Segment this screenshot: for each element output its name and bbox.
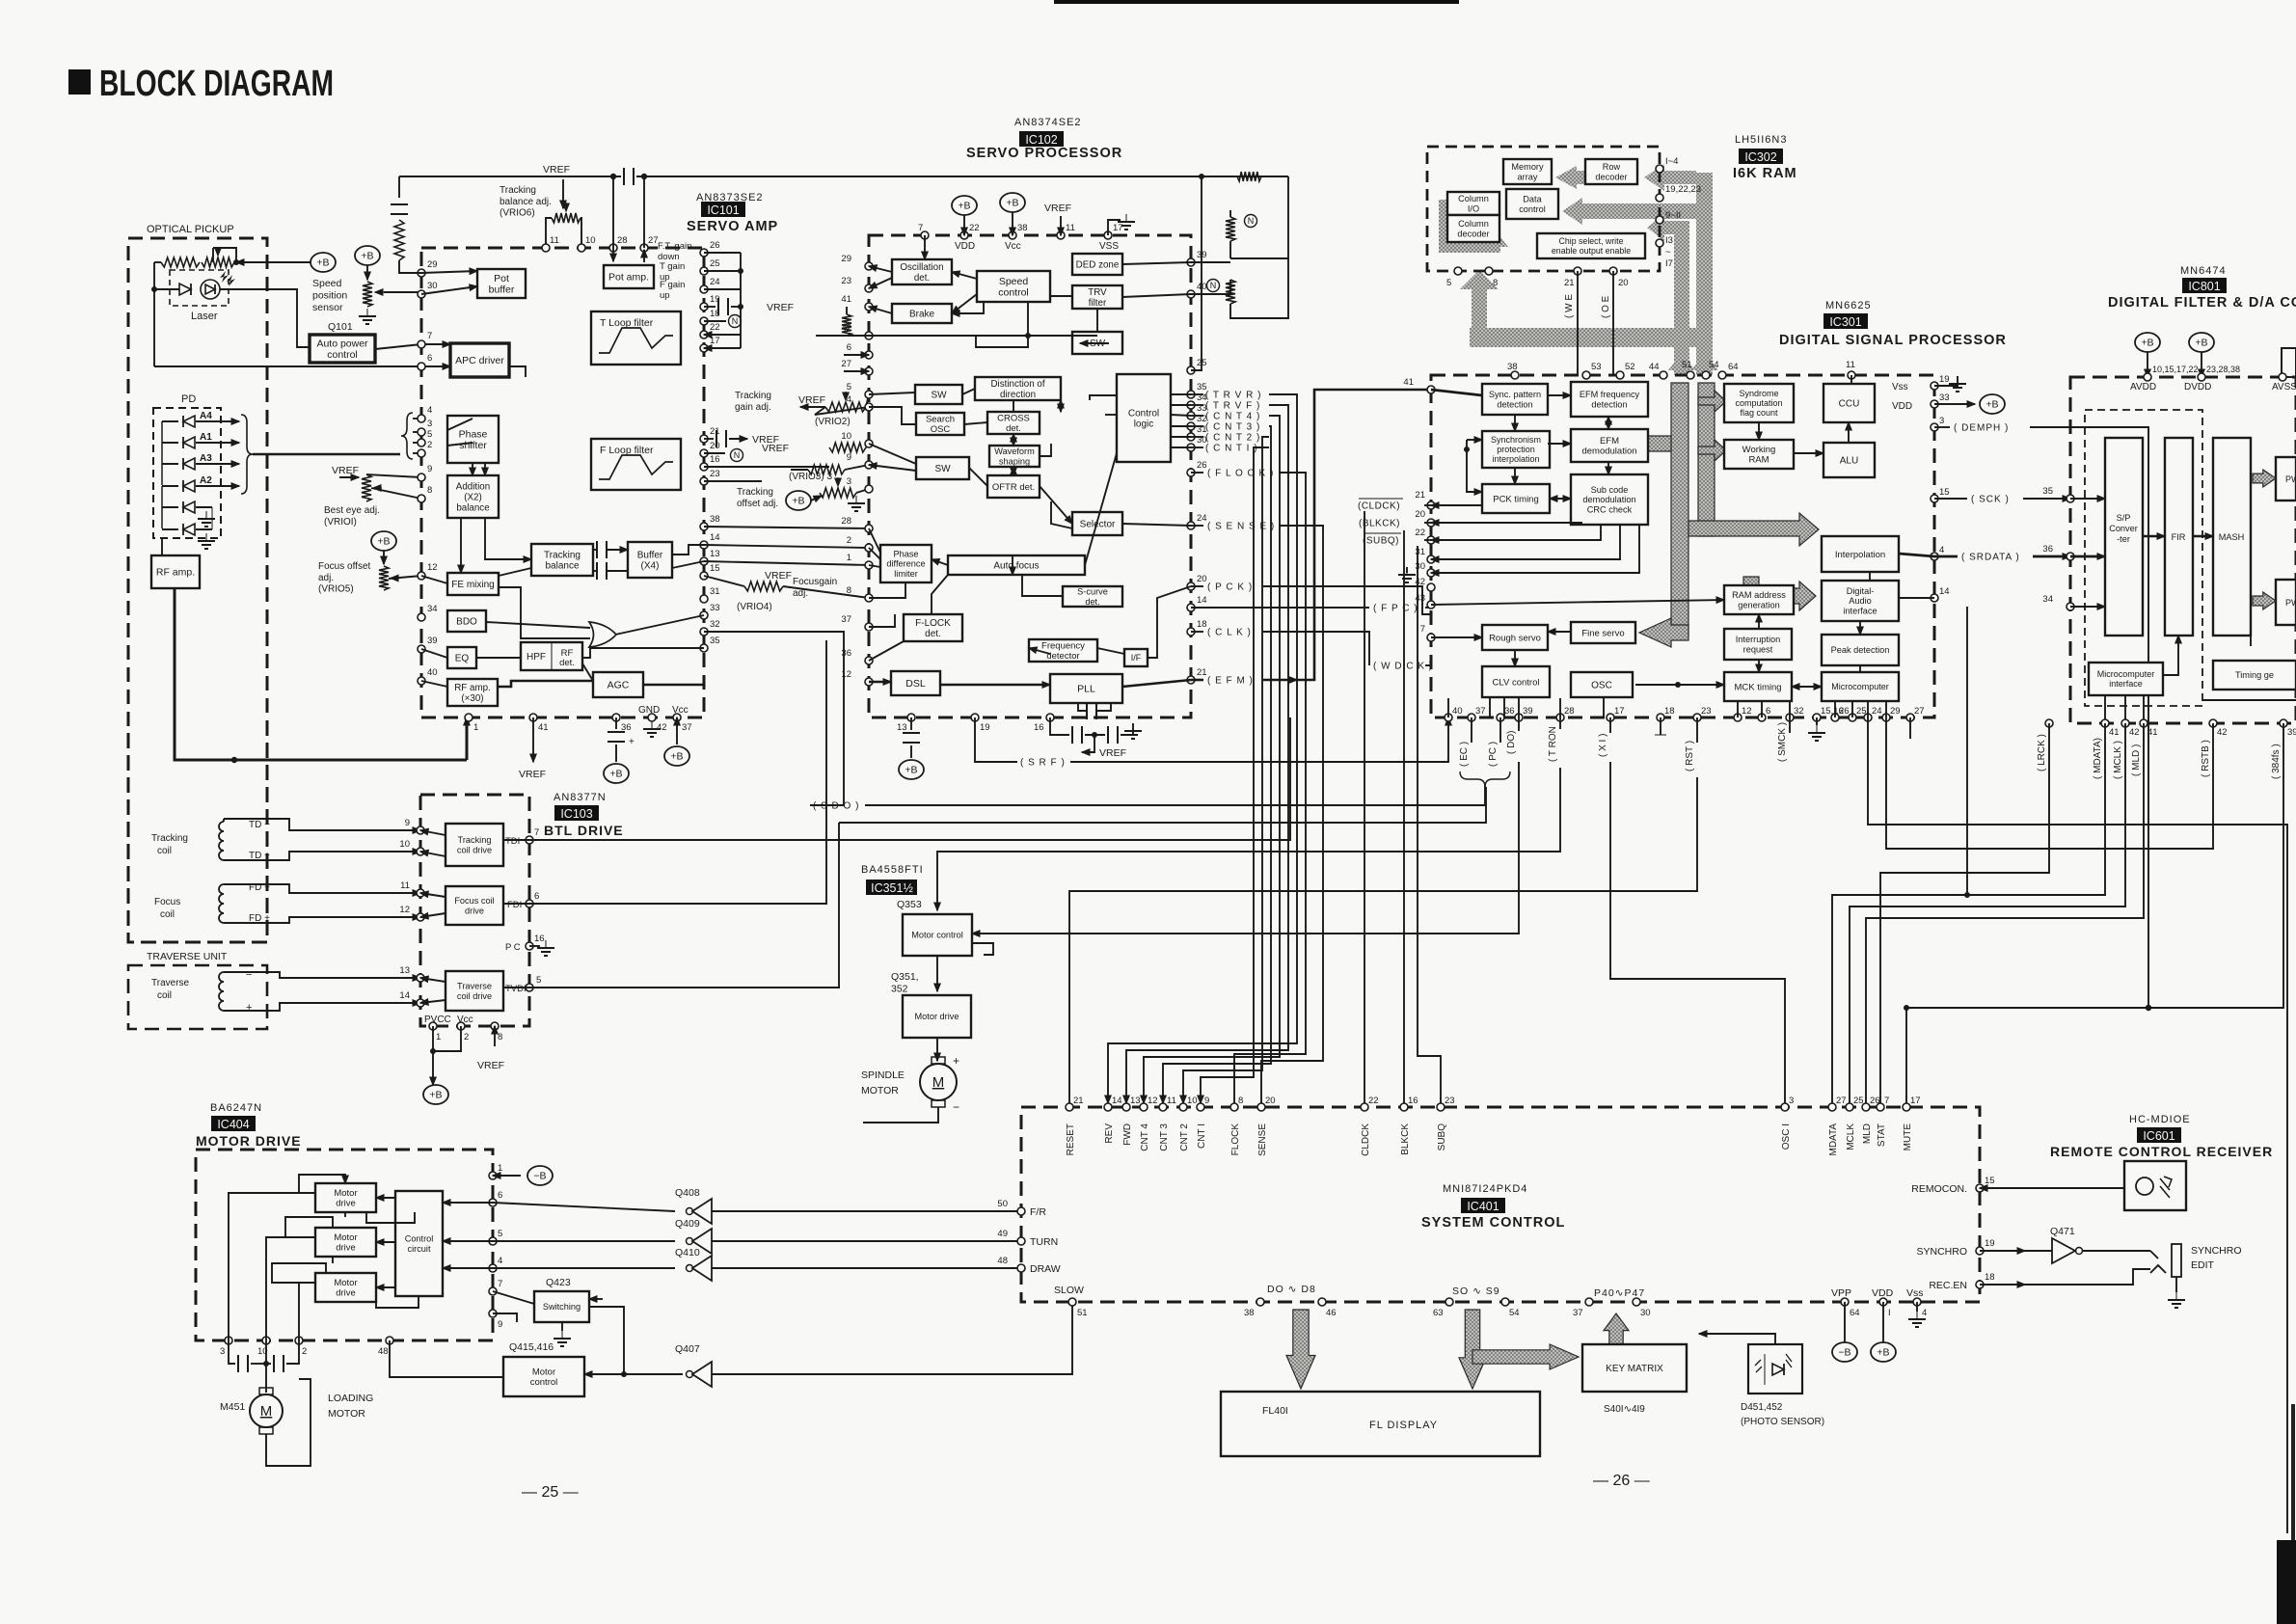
motor M451 loading bbox=[250, 1379, 311, 1466]
svg-text:Speed: Speed bbox=[999, 276, 1029, 287]
svg-text:37: 37 bbox=[1475, 706, 1486, 717]
svg-text:BDO: BDO bbox=[456, 617, 477, 628]
svg-text:Column: Column bbox=[1458, 194, 1489, 203]
svg-text:13: 13 bbox=[1130, 1096, 1141, 1106]
svg-text:balance: balance bbox=[456, 502, 490, 513]
timing generator bbox=[2213, 661, 2296, 690]
svg-text:14: 14 bbox=[710, 532, 720, 543]
svg-text:T gain: T gain bbox=[660, 261, 685, 272]
svg-text:29: 29 bbox=[427, 259, 438, 270]
transistor Q410 inverter bbox=[493, 1247, 1021, 1281]
svg-text:(BLKCK): (BLKCK) bbox=[1359, 519, 1400, 529]
VREF resistor pins 10 9 bbox=[762, 443, 869, 474]
svg-text:Q471: Q471 bbox=[2050, 1226, 2075, 1237]
svg-text:STAT: STAT bbox=[1877, 1123, 1887, 1147]
svg-text:19: 19 bbox=[980, 722, 990, 733]
svg-text:12: 12 bbox=[427, 562, 438, 573]
wires inside IC102 bbox=[869, 251, 1191, 719]
svg-text:24: 24 bbox=[1872, 706, 1882, 717]
svg-text:(VRIO3) 3: (VRIO3) 3 bbox=[789, 472, 832, 482]
svg-text:detector: detector bbox=[1046, 651, 1079, 662]
svg-text:24: 24 bbox=[1197, 513, 1207, 524]
svg-text:M: M bbox=[260, 1403, 273, 1420]
brake bbox=[892, 304, 952, 323]
wires IC102 bottom external bbox=[899, 717, 1142, 779]
svg-text:17: 17 bbox=[1614, 706, 1625, 717]
svg-text:IC404: IC404 bbox=[217, 1118, 249, 1131]
control logic bbox=[1117, 374, 1171, 462]
wire DEMPH bbox=[1934, 423, 2151, 1012]
svg-text:MLD: MLD bbox=[1862, 1123, 1873, 1144]
svg-text:CNT 3: CNT 3 bbox=[1159, 1123, 1170, 1151]
svg-text:27: 27 bbox=[841, 359, 851, 369]
focus coil bbox=[154, 882, 420, 924]
svg-text:2: 2 bbox=[464, 1032, 469, 1042]
wire TD1 from right bbox=[529, 717, 1290, 840]
svg-text:VDD: VDD bbox=[1872, 1287, 1894, 1299]
svg-text:( X I ): ( X I ) bbox=[1598, 734, 1608, 757]
svg-text:10: 10 bbox=[399, 839, 410, 850]
wire SDO bbox=[704, 632, 1485, 812]
IC401 top pin row bbox=[1066, 1096, 1921, 1156]
svg-text:VREF: VREF bbox=[765, 570, 792, 582]
svg-text:det.: det. bbox=[559, 658, 575, 668]
svg-text:(SUBQ): (SUBQ) bbox=[1363, 536, 1399, 547]
svg-text:9: 9 bbox=[847, 452, 851, 463]
svg-text:51: 51 bbox=[1077, 1308, 1088, 1318]
svg-text:53: 53 bbox=[1591, 362, 1602, 372]
wires IC101 right gain pins bbox=[704, 253, 743, 348]
svg-text:Q408: Q408 bbox=[675, 1187, 700, 1199]
svg-text:19: 19 bbox=[1985, 1238, 1995, 1249]
svg-text:38: 38 bbox=[1017, 223, 1028, 233]
RAM address generation bbox=[1724, 585, 1794, 614]
svg-text:26: 26 bbox=[1839, 706, 1850, 717]
auto focus bbox=[948, 555, 1085, 575]
svg-text:offset adj.: offset adj. bbox=[737, 499, 778, 509]
IC103 pin set bbox=[399, 818, 544, 1042]
photodiode symbols bbox=[162, 411, 239, 549]
svg-text:BA6247N: BA6247N bbox=[210, 1102, 262, 1114]
svg-text:REV: REV bbox=[1104, 1123, 1115, 1144]
Q101 auto power control box bbox=[310, 335, 375, 363]
svg-text:buffer: buffer bbox=[489, 284, 515, 296]
ground below switching bbox=[554, 1322, 571, 1346]
svg-text:EQ: EQ bbox=[455, 654, 470, 664]
remote control receiver IC601 bbox=[2124, 1161, 2186, 1210]
IC351 reference bbox=[866, 880, 917, 895]
svg-text:P C: P C bbox=[505, 942, 521, 953]
svg-text:drive: drive bbox=[465, 906, 484, 915]
svg-text:( W E: ( W E bbox=[1564, 294, 1575, 318]
EFM demodulation bbox=[1571, 429, 1648, 462]
svg-text:34: 34 bbox=[427, 604, 438, 614]
svg-text:gain adj.: gain adj. bbox=[735, 402, 771, 413]
svg-text:8: 8 bbox=[1493, 278, 1498, 288]
svg-text:F/R: F/R bbox=[1030, 1206, 1046, 1218]
svg-text:26: 26 bbox=[1197, 460, 1207, 471]
wire PD bundle to phase shifter bbox=[241, 413, 421, 494]
svg-text:Row: Row bbox=[1603, 162, 1621, 172]
svg-text:Control: Control bbox=[1128, 408, 1159, 419]
svg-text:1: 1 bbox=[436, 1032, 441, 1042]
svg-text:25: 25 bbox=[1853, 1096, 1864, 1106]
IC103 internal wires bbox=[420, 830, 554, 1003]
IC401 right pin row bbox=[1911, 1176, 1994, 1291]
svg-text:PCK timing: PCK timing bbox=[1493, 494, 1539, 504]
svg-text:5: 5 bbox=[847, 382, 851, 392]
svg-text:( LRCK ): ( LRCK ) bbox=[2037, 734, 2047, 771]
svg-text:23: 23 bbox=[710, 469, 720, 479]
svg-text:Tracking: Tracking bbox=[737, 487, 773, 498]
wires inside IC301 bbox=[1398, 375, 1934, 717]
svg-text:( T R V F ): ( T R V F ) bbox=[1205, 401, 1260, 412]
svg-text:( O E: ( O E bbox=[1601, 295, 1611, 318]
svg-text:AN8377N: AN8377N bbox=[554, 792, 607, 803]
PCK timing bbox=[1482, 484, 1550, 513]
svg-text:~: ~ bbox=[1665, 247, 1671, 257]
svg-text:Motor: Motor bbox=[334, 1188, 357, 1199]
svg-text:+B: +B bbox=[1006, 198, 1018, 209]
tracking gain adj pot VR102 bbox=[800, 392, 869, 415]
best eye adj pot VR101 bbox=[332, 465, 421, 501]
svg-text:27: 27 bbox=[1914, 706, 1925, 717]
svg-text:generation: generation bbox=[1738, 600, 1779, 609]
svg-text:19,22,23: 19,22,23 bbox=[1665, 184, 1701, 195]
IC801 boundary bbox=[2070, 377, 2296, 723]
sync pattern detection bbox=[1482, 384, 1548, 415]
microcomputer bbox=[1822, 672, 1899, 701]
svg-text:42: 42 bbox=[2217, 727, 2228, 738]
svg-text:VREF: VREF bbox=[332, 465, 359, 476]
label focusgain adj bbox=[793, 577, 837, 599]
svg-text:41: 41 bbox=[2109, 727, 2120, 738]
svg-text:decoder: decoder bbox=[1457, 229, 1489, 238]
svg-text:21: 21 bbox=[1564, 278, 1575, 288]
svg-text:detection: detection bbox=[1591, 399, 1627, 409]
svg-text:coil drive: coil drive bbox=[457, 991, 492, 1001]
svg-text:SYNCHRO: SYNCHRO bbox=[2191, 1245, 2242, 1257]
S P converter bbox=[2105, 438, 2143, 636]
svg-text:+B: +B bbox=[2141, 338, 2153, 349]
svg-text:41: 41 bbox=[2147, 727, 2158, 738]
svg-text:( SCK ): ( SCK ) bbox=[1971, 495, 2010, 505]
svg-text:FIR: FIR bbox=[2172, 532, 2186, 542]
MCK timing bbox=[1724, 672, 1792, 701]
svg-text:Synchronism: Synchronism bbox=[1491, 435, 1541, 445]
svg-text:DO ∿ D8: DO ∿ D8 bbox=[1267, 1284, 1316, 1295]
IC103 bottom power wires bbox=[423, 1026, 504, 1104]
svg-text:25: 25 bbox=[710, 258, 720, 269]
IC101 bottom pins bbox=[465, 705, 692, 733]
svg-text:-ter: -ter bbox=[2117, 534, 2130, 544]
F-LOCK det bbox=[904, 614, 962, 641]
svg-text:11: 11 bbox=[1066, 223, 1075, 233]
wire WE OE to DSP bbox=[1564, 271, 1613, 375]
svg-text:IC401: IC401 bbox=[1467, 1200, 1499, 1213]
svg-text:A2: A2 bbox=[200, 475, 212, 486]
svg-text:DED zone: DED zone bbox=[1076, 259, 1120, 270]
gray arrow to syndrome computation bbox=[1698, 391, 1726, 412]
svg-text:AVSS: AVSS bbox=[2272, 382, 2296, 392]
svg-text:13: 13 bbox=[710, 549, 720, 559]
svg-text:Focus offset: Focus offset bbox=[318, 561, 371, 572]
svg-text:( SRDATA ): ( SRDATA ) bbox=[1961, 553, 2020, 563]
op-amp IC101 servo amp boundary bbox=[421, 248, 704, 717]
svg-text:drive: drive bbox=[336, 1288, 356, 1299]
svg-text:Motor: Motor bbox=[532, 1367, 555, 1378]
svg-text:40: 40 bbox=[427, 667, 438, 678]
svg-text:difference: difference bbox=[886, 559, 925, 569]
speed control bbox=[977, 271, 1050, 302]
svg-text:( C N T 4 ): ( C N T 4 ) bbox=[1205, 412, 1260, 422]
svg-text:3: 3 bbox=[1939, 416, 1944, 426]
OSC bbox=[1571, 672, 1633, 697]
wires IC101 bottom bbox=[519, 717, 689, 783]
wire X1 to OSC1 bbox=[1598, 717, 1785, 1107]
svg-text:LOADING: LOADING bbox=[328, 1393, 373, 1404]
svg-text:Microcomputer: Microcomputer bbox=[2097, 669, 2155, 679]
svg-text:41: 41 bbox=[1403, 377, 1414, 388]
svg-text:( S D O ): ( S D O ) bbox=[813, 801, 859, 812]
svg-text:control: control bbox=[998, 287, 1029, 299]
svg-text:7: 7 bbox=[918, 223, 923, 233]
svg-text:1: 1 bbox=[473, 722, 478, 733]
svg-text:Laser: Laser bbox=[191, 311, 218, 322]
svg-text:REMOCON.: REMOCON. bbox=[1911, 1183, 1967, 1195]
svg-text:VREF: VREF bbox=[1099, 747, 1126, 759]
svg-text:position: position bbox=[312, 289, 347, 301]
svg-text:balance: balance bbox=[545, 561, 579, 572]
IC101 reference bbox=[701, 202, 745, 217]
gray arrow S bus to key matrix bbox=[1472, 1344, 1579, 1369]
svg-text:enable output enable: enable output enable bbox=[1552, 246, 1631, 256]
svg-text:42: 42 bbox=[657, 722, 667, 733]
tracking balance adj pot VR106 bbox=[543, 164, 581, 248]
Q353 motor control box bbox=[903, 914, 972, 956]
svg-text:( RSTB ): ( RSTB ) bbox=[2201, 740, 2211, 777]
svg-text:Interpolation: Interpolation bbox=[1835, 550, 1885, 560]
PD enclosure bbox=[153, 408, 221, 538]
svg-text:2: 2 bbox=[847, 535, 851, 546]
wire APC driver output bbox=[509, 366, 526, 377]
AGC bbox=[593, 672, 643, 697]
svg-text:F gain: F gain bbox=[660, 280, 685, 290]
svg-text:36: 36 bbox=[1504, 706, 1515, 717]
transistor Q407 inverter bbox=[584, 1302, 1072, 1387]
IC301 bottom pin row bbox=[1445, 706, 1925, 721]
PW upper bbox=[2276, 457, 2296, 501]
wires TRVR TRVF CNT bus to IC401 bbox=[1108, 391, 1297, 1104]
svg-text:— 25 —: — 25 — bbox=[522, 1484, 579, 1501]
svg-text:35: 35 bbox=[710, 636, 720, 646]
svg-text:IC302: IC302 bbox=[1744, 150, 1776, 164]
svg-text:22: 22 bbox=[1368, 1096, 1379, 1106]
svg-text:11: 11 bbox=[550, 235, 559, 246]
svg-text:adj.: adj. bbox=[793, 588, 808, 599]
IC102 reference bbox=[1019, 131, 1064, 147]
svg-text:OFTR det.: OFTR det. bbox=[992, 482, 1035, 493]
svg-text:REMOTE CONTROL RECEIVER: REMOTE CONTROL RECEIVER bbox=[2050, 1144, 2273, 1159]
svg-text:CNT I: CNT I bbox=[1197, 1123, 1207, 1149]
svg-text:16: 16 bbox=[534, 934, 545, 944]
svg-text:IC101: IC101 bbox=[707, 203, 739, 217]
IC801 bottom signal labels bbox=[2037, 734, 2282, 779]
svg-text:Brake: Brake bbox=[909, 310, 935, 320]
svg-text:12: 12 bbox=[1148, 1096, 1158, 1106]
wire DSP24 route right bbox=[1868, 717, 2287, 1533]
svg-text:CNT 4: CNT 4 bbox=[1140, 1123, 1150, 1151]
svg-text:BLOCK DIAGRAM: BLOCK DIAGRAM bbox=[99, 64, 334, 104]
svg-text:MCLK: MCLK bbox=[1846, 1123, 1856, 1150]
svg-text:detection: detection bbox=[1497, 399, 1532, 409]
svg-text:PW: PW bbox=[2285, 598, 2296, 608]
svg-text:−: − bbox=[246, 969, 252, 981]
wire motor control feedback bbox=[972, 943, 993, 955]
svg-text:MOTOR DRIVE: MOTOR DRIVE bbox=[196, 1133, 302, 1149]
wire PD to RF amp bbox=[161, 538, 163, 555]
svg-text:D451,452: D451,452 bbox=[1741, 1402, 1783, 1413]
CCU bbox=[1823, 384, 1875, 422]
svg-text:41: 41 bbox=[538, 722, 549, 733]
svg-text:3: 3 bbox=[1789, 1096, 1794, 1106]
EFM frequency detection bbox=[1571, 382, 1648, 417]
svg-text:SW: SW bbox=[934, 464, 951, 474]
svg-text:Buffer: Buffer bbox=[637, 550, 663, 560]
svg-text:48: 48 bbox=[997, 1256, 1008, 1266]
svg-text:+B: +B bbox=[316, 257, 329, 269]
svg-text:Phase: Phase bbox=[459, 428, 488, 440]
svg-text:I7: I7 bbox=[1665, 258, 1673, 269]
T loop filter box bbox=[591, 311, 681, 365]
svg-text:4: 4 bbox=[1922, 1308, 1927, 1318]
svg-text:MOTOR: MOTOR bbox=[328, 1408, 365, 1420]
svg-text:31: 31 bbox=[1415, 547, 1425, 557]
label FT gain bbox=[658, 241, 691, 262]
svg-text:OSC I: OSC I bbox=[1781, 1123, 1792, 1150]
svg-text:+B: +B bbox=[670, 751, 683, 763]
svg-text:+: + bbox=[953, 1054, 959, 1068]
control circuit bbox=[395, 1191, 443, 1296]
svg-text:Q351,: Q351, bbox=[891, 971, 919, 983]
svg-text:10: 10 bbox=[1187, 1096, 1198, 1106]
wire SENSE bbox=[1191, 522, 1323, 1108]
label T gain bbox=[660, 261, 685, 283]
svg-text:APC driver: APC driver bbox=[455, 355, 504, 366]
row decoder bbox=[1585, 159, 1637, 184]
svg-text:( MCLK ): ( MCLK ) bbox=[2113, 741, 2123, 779]
svg-text:( EC ): ( EC ) bbox=[1459, 742, 1470, 767]
svg-text:PVCC: PVCC bbox=[424, 1015, 451, 1025]
svg-text:MNI87I24PKD4: MNI87I24PKD4 bbox=[1443, 1183, 1527, 1195]
EQ bbox=[447, 647, 476, 668]
svg-text:MASH: MASH bbox=[2219, 532, 2245, 542]
IC103 reference bbox=[554, 805, 599, 821]
wires IC101 right F-loop pins bbox=[704, 430, 829, 481]
svg-text:10: 10 bbox=[585, 235, 596, 246]
svg-text:flag count: flag count bbox=[1740, 408, 1778, 418]
svg-text:Tracking: Tracking bbox=[458, 835, 492, 845]
svg-text:RAM: RAM bbox=[1748, 455, 1769, 466]
F loop filter box bbox=[591, 439, 681, 490]
focus offset adj pot VR105 bbox=[371, 531, 421, 590]
svg-text:RESET: RESET bbox=[1066, 1123, 1076, 1155]
MASH bbox=[2213, 438, 2251, 636]
svg-text:circuit: circuit bbox=[408, 1244, 431, 1254]
wire TRON to motor control bbox=[937, 717, 1560, 910]
svg-text:22: 22 bbox=[710, 322, 720, 333]
svg-text:shaping: shaping bbox=[999, 456, 1030, 466]
traverse coil drive bbox=[446, 971, 503, 1011]
IC102 left pin row bbox=[841, 254, 873, 686]
svg-text:Q423: Q423 bbox=[546, 1277, 571, 1288]
svg-text:6: 6 bbox=[498, 1190, 502, 1201]
svg-text:BLKCK: BLKCK bbox=[1400, 1123, 1411, 1155]
svg-text:20: 20 bbox=[1618, 278, 1629, 288]
optical pickup lower dashed continuation bbox=[128, 733, 267, 942]
label synchro edit bbox=[2191, 1245, 2242, 1271]
svg-text:VSS: VSS bbox=[1099, 241, 1119, 252]
svg-text:(CLDCK): (CLDCK) bbox=[1358, 501, 1400, 512]
svg-text:Sub code: Sub code bbox=[1591, 485, 1629, 495]
IC601 reference bbox=[2137, 1127, 2181, 1143]
IC302 right and bottom pins bbox=[1446, 156, 1701, 288]
svg-text:23: 23 bbox=[841, 276, 851, 286]
svg-text:10: 10 bbox=[841, 431, 851, 442]
power +B speed sensor bbox=[355, 246, 380, 280]
svg-text:Motor control: Motor control bbox=[911, 931, 963, 940]
wire FDI from right bbox=[529, 640, 826, 904]
wire spindle motor return bbox=[863, 1107, 938, 1123]
svg-text:40: 40 bbox=[1452, 706, 1463, 717]
svg-text:KEY MATRIX: KEY MATRIX bbox=[1606, 1364, 1663, 1374]
svg-text:49: 49 bbox=[997, 1229, 1008, 1239]
gray band to interpolation bbox=[1688, 513, 1819, 546]
svg-text:Vss: Vss bbox=[1892, 382, 1908, 392]
svg-text:drive: drive bbox=[336, 1243, 356, 1254]
svg-text:27: 27 bbox=[1836, 1096, 1847, 1106]
Q351 motor drive box bbox=[903, 995, 971, 1038]
svg-text:A1: A1 bbox=[200, 432, 212, 443]
svg-text:DSL: DSL bbox=[905, 678, 926, 690]
svg-text:28: 28 bbox=[1564, 706, 1575, 717]
tracking balance bbox=[531, 544, 593, 576]
svg-text:FDI: FDI bbox=[507, 900, 522, 910]
OFTR det bbox=[987, 475, 1040, 498]
gray arrow to fine servo bbox=[1639, 618, 1688, 647]
svg-text:36: 36 bbox=[2042, 544, 2053, 555]
svg-text:8: 8 bbox=[427, 485, 432, 496]
svg-text:9: 9 bbox=[1204, 1096, 1209, 1106]
IC102 right pin row bbox=[1187, 250, 1207, 684]
svg-text:S40I∿4I9: S40I∿4I9 bbox=[1604, 1404, 1645, 1415]
svg-text:33: 33 bbox=[1939, 392, 1950, 403]
selector bbox=[1072, 512, 1122, 535]
motor drive 3 bbox=[315, 1273, 376, 1302]
svg-text:11: 11 bbox=[400, 880, 410, 891]
wire key matrix to photo sensor bbox=[1699, 1334, 1775, 1344]
svg-text:Search: Search bbox=[926, 415, 955, 425]
svg-text:DRAW: DRAW bbox=[1030, 1263, 1061, 1275]
svg-text:30: 30 bbox=[1640, 1308, 1651, 1318]
svg-text:Vss: Vss bbox=[1906, 1287, 1924, 1299]
svg-text:Oscillation: Oscillation bbox=[900, 262, 943, 273]
svg-text:protection: protection bbox=[1497, 445, 1535, 454]
svg-text:SLOW: SLOW bbox=[1054, 1285, 1084, 1296]
svg-text:( PC ): ( PC ) bbox=[1488, 742, 1499, 767]
svg-text:BTL DRIVE: BTL DRIVE bbox=[544, 823, 624, 838]
svg-text:A4: A4 bbox=[200, 411, 212, 421]
